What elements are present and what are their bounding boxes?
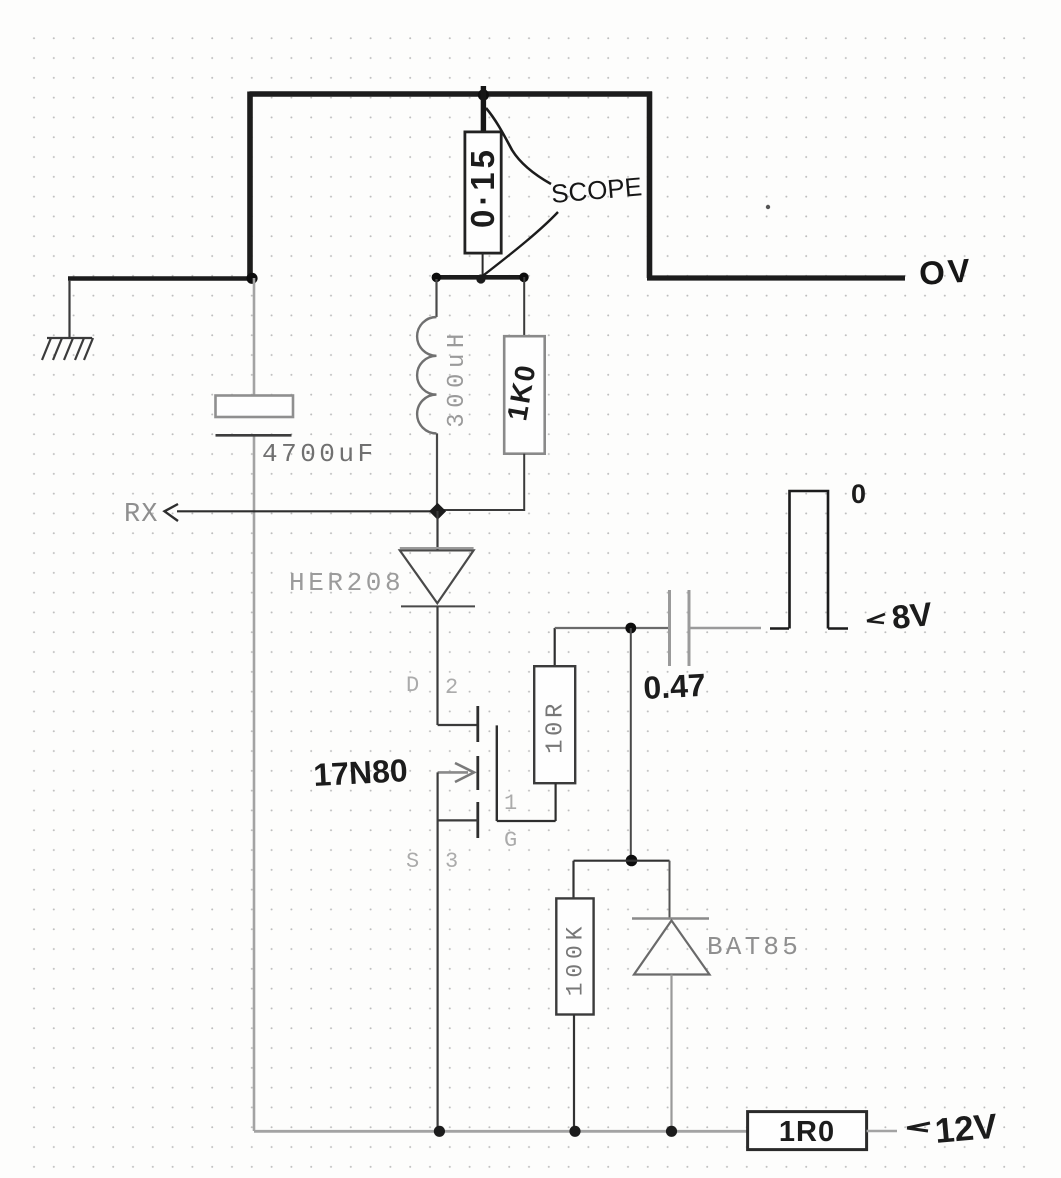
resistor 10R top lead — [554, 628, 556, 666]
resistor 10R body — [534, 666, 575, 783]
svg-text:0·15: 0·15 — [464, 146, 501, 228]
resistor 100K body — [556, 898, 593, 1014]
wire 10R top to cap 0.47 — [555, 627, 670, 629]
inductor L1 bottom lead — [436, 433, 438, 510]
transistor Q1 source connection — [438, 819, 478, 821]
node RX junction — [429, 503, 446, 520]
annotation SCOPE pointer lower curve — [480, 212, 558, 278]
transistor Q1 source lead — [437, 772, 439, 1131]
svg-text:2: 2 — [445, 675, 458, 700]
svg-text:BAT85: BAT85 — [707, 932, 801, 962]
capacitor C1 4700uF body plate — [216, 396, 294, 418]
wire 0V bus left vertical — [247, 92, 253, 279]
wire rail right stub — [867, 1130, 897, 1133]
wire 0V top bus horizontal — [250, 91, 653, 97]
resistor 1K0 body — [504, 336, 545, 454]
node mid bus right end — [519, 273, 529, 283]
wire cap right stub — [689, 627, 761, 630]
svg-text:D: D — [406, 673, 419, 698]
diode D1 HER208 triangle — [400, 550, 474, 603]
node junction top bus / shunt — [478, 89, 489, 100]
capacitor C2 0.47 right plate — [688, 590, 691, 666]
svg-text:4700uF: 4700uF — [262, 439, 377, 469]
ground lead wire — [68, 280, 70, 338]
diode D2 BAT85 cathode bar — [632, 917, 709, 920]
capacitor C1 bottom plate — [216, 434, 292, 437]
svg-text:HER208: HER208 — [289, 568, 404, 598]
ground symbol — [42, 338, 93, 360]
svg-text:G: G — [504, 828, 517, 853]
transistor Q1 body arrow — [438, 771, 468, 774]
svg-text:17N80: 17N80 — [312, 752, 408, 793]
transistor Q1 gate lead — [497, 820, 556, 822]
resistor 0.15 scope shunt : body — [465, 132, 501, 253]
resistor 1K0 top lead — [523, 277, 525, 336]
inductor L1 coil — [417, 317, 436, 433]
waveform baseline right — [828, 627, 848, 630]
svg-text:1R0: 1R0 — [779, 1116, 835, 1148]
node rail 100K junction — [569, 1126, 580, 1137]
diode D1 bottom lead — [436, 606, 438, 725]
waveform pulse — [790, 491, 829, 629]
waveform annotation baseline left — [770, 627, 789, 630]
label -12V handwritten — [907, 1123, 930, 1128]
capacitor C2 0.47 left plate — [668, 590, 671, 666]
svg-text:10R: 10R — [543, 700, 570, 754]
svg-text:8V: 8V — [890, 595, 934, 636]
svg-text:OV: OV — [918, 251, 974, 292]
svg-text:12V: 12V — [933, 1107, 999, 1151]
resistor 100K bottom lead — [573, 1015, 575, 1132]
node shunt bottom junction — [476, 274, 485, 283]
svg-text:0.47: 0.47 — [642, 667, 706, 706]
diode D1 HER208 cathode bar — [401, 605, 475, 607]
transistor Q1 gate plate — [496, 725, 498, 821]
diode D2 BAT85 bottom lead — [670, 975, 672, 1132]
resistor 0.15 scope shunt : bottom lead — [482, 253, 484, 277]
wire gate net left drop — [572, 861, 574, 899]
resistor 1K0 bottom lead — [437, 454, 524, 510]
transistor Q1 channel segment middle — [476, 756, 479, 790]
wire 0V bus right horizontal — [647, 275, 905, 280]
svg-text:0: 0 — [851, 479, 866, 509]
wire gate net horizontal — [574, 860, 670, 862]
wire 0V mid bus segment — [432, 275, 527, 280]
wire junction down to gate net — [630, 628, 632, 861]
transistor Q1 drain connection — [438, 724, 478, 726]
resistor 10R bottom lead — [554, 783, 556, 821]
inductor L1 top lead — [435, 279, 437, 317]
diode D2 BAT85 triangle — [634, 921, 710, 975]
svg-text:1: 1 — [504, 791, 517, 816]
svg-text:3: 3 — [445, 849, 458, 874]
node rail BAT85 junction — [666, 1126, 677, 1137]
svg-text:RX: RX — [124, 500, 158, 530]
wire left rail vertical gray — [253, 278, 256, 396]
svg-text:300uH: 300uH — [444, 328, 471, 428]
resistor 1R0 body — [748, 1112, 867, 1150]
node corner 0V left — [246, 273, 257, 284]
svg-text:S: S — [406, 849, 419, 874]
wire 0V bus left horizontal to ground branch — [68, 276, 252, 281]
RX arrowhead — [165, 504, 179, 521]
scan speck — [766, 205, 770, 209]
node gate net junction — [626, 855, 638, 867]
node mid bus left end — [432, 273, 442, 283]
svg-text:100K: 100K — [563, 922, 589, 996]
node cap junction — [625, 623, 636, 634]
transistor Q1 channel segment bottom — [476, 802, 479, 838]
wire 0V bus right vertical — [647, 92, 653, 279]
diode D1 HER208 top lead — [436, 511, 438, 550]
wire -12V bottom rail — [254, 1130, 748, 1133]
transistor Q1 channel segment top — [476, 706, 479, 742]
annotation SCOPE pointer upper curve — [486, 108, 551, 184]
resistor 0.15 scope shunt : top lead — [481, 86, 486, 134]
wire RX line — [177, 510, 438, 512]
node rail source junction — [434, 1126, 445, 1137]
wire gate net right drop — [669, 861, 671, 919]
